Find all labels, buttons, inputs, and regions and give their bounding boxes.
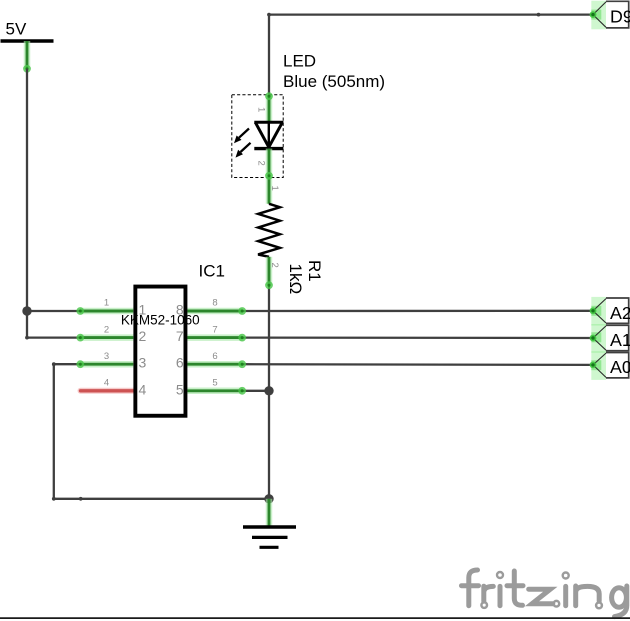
bendpoint on bottom wire [79, 497, 83, 501]
svg-text:LED: LED [283, 51, 316, 70]
svg-text:6: 6 [212, 351, 217, 362]
svg-text:6: 6 [176, 355, 184, 371]
svg-text:5: 5 [212, 378, 217, 389]
svg-text:D9: D9 [610, 7, 630, 27]
IC pin 3 (left) [76, 360, 133, 368]
wire bend to IC pin2 [27, 336, 80, 338]
svg-text:7: 7 [176, 328, 184, 344]
LED pin 2 / R1 pin 1 (green run) [265, 149, 273, 204]
svg-text:2: 2 [269, 263, 280, 268]
svg-text:1: 1 [104, 298, 109, 309]
ground symbol [243, 499, 296, 548]
wire IC pin7 to A1 [243, 336, 593, 339]
IC pin 1 (left) [76, 307, 133, 315]
bendpoint on top wire [537, 13, 541, 17]
svg-text:A2: A2 [610, 303, 630, 323]
svg-text:8: 8 [212, 298, 217, 309]
wire top corner down to LED [268, 15, 270, 96]
svg-text:8: 8 [176, 302, 184, 318]
wire IC pin6 to A0 [243, 363, 593, 366]
svg-text:Blue (505nm): Blue (505nm) [283, 72, 385, 91]
bendpoint at pin2 row [25, 336, 29, 340]
svg-text:A1: A1 [610, 330, 630, 350]
IC pin 5 (right) [187, 387, 246, 395]
svg-text:IC1: IC1 [199, 261, 225, 280]
fritzing watermark [462, 570, 627, 617]
svg-text:2: 2 [104, 324, 109, 335]
bendpoint top corner [267, 13, 271, 17]
svg-text:2: 2 [139, 328, 147, 344]
junction node (ground) [264, 494, 273, 503]
wire 5V down to pin2 bend [26, 69, 28, 338]
junction node (5V / pin1) [22, 306, 31, 315]
wire IC pin8 to A2 [243, 310, 593, 313]
connector A1 [590, 324, 630, 353]
svg-text:3: 3 [104, 351, 109, 362]
R1 pin 2 [265, 257, 273, 289]
connector A2 [590, 297, 630, 326]
wire R1 to pin5 junction [268, 285, 270, 391]
svg-text:1: 1 [269, 186, 280, 191]
LED D label [283, 51, 385, 91]
LED pin 1 [265, 92, 273, 122]
svg-text:KKM52-1060: KKM52-1060 [121, 312, 200, 327]
connector D9 [590, 1, 630, 30]
svg-text:1: 1 [256, 107, 267, 112]
svg-text:2: 2 [256, 161, 267, 166]
wire bottom horizontal to ground [54, 498, 269, 500]
LED emission arrow 1 [234, 129, 249, 144]
IC pin 8 (right) [187, 307, 246, 315]
svg-text:3: 3 [139, 355, 147, 371]
connector A0 [590, 351, 630, 380]
IC pin 6 (right) [187, 360, 246, 368]
resistor R1 body [258, 204, 280, 257]
IC pin 2 (left) [76, 334, 133, 342]
wire IC pin5 to vertical [243, 390, 270, 392]
LED emission arrow 2 [236, 143, 251, 158]
IC1 body [135, 287, 185, 416]
wire top corner to D9 [269, 13, 593, 15]
svg-text:5V: 5V [6, 20, 27, 39]
wire junction to IC pin1 [27, 310, 80, 312]
bottom border [0, 617, 630, 619]
svg-text:4: 4 [104, 378, 109, 389]
LED body [254, 122, 283, 148]
junction node (pin5 / R1 / ground run) [264, 386, 273, 395]
power symbol 5V [1, 20, 54, 73]
bendpoint pin3 corner [52, 362, 56, 366]
bendpoint bottom-left corner [52, 497, 56, 501]
wire pin5 junction down to ground junction [268, 391, 270, 499]
svg-text:R1: R1 [305, 260, 324, 282]
svg-text:1kΩ: 1kΩ [286, 264, 305, 295]
IC pin 7 (right) [187, 334, 246, 342]
LED selection box (dashed) [232, 95, 283, 178]
wire IC pin3 horizontal [54, 363, 80, 365]
IC pin 4 (left, unconnected red) [81, 388, 134, 394]
svg-text:4: 4 [139, 381, 147, 397]
svg-text:5: 5 [176, 381, 184, 397]
svg-text:1: 1 [139, 302, 147, 318]
svg-text:7: 7 [212, 324, 217, 335]
wire pin3 vertical down [53, 364, 55, 499]
svg-text:A0: A0 [610, 357, 630, 377]
